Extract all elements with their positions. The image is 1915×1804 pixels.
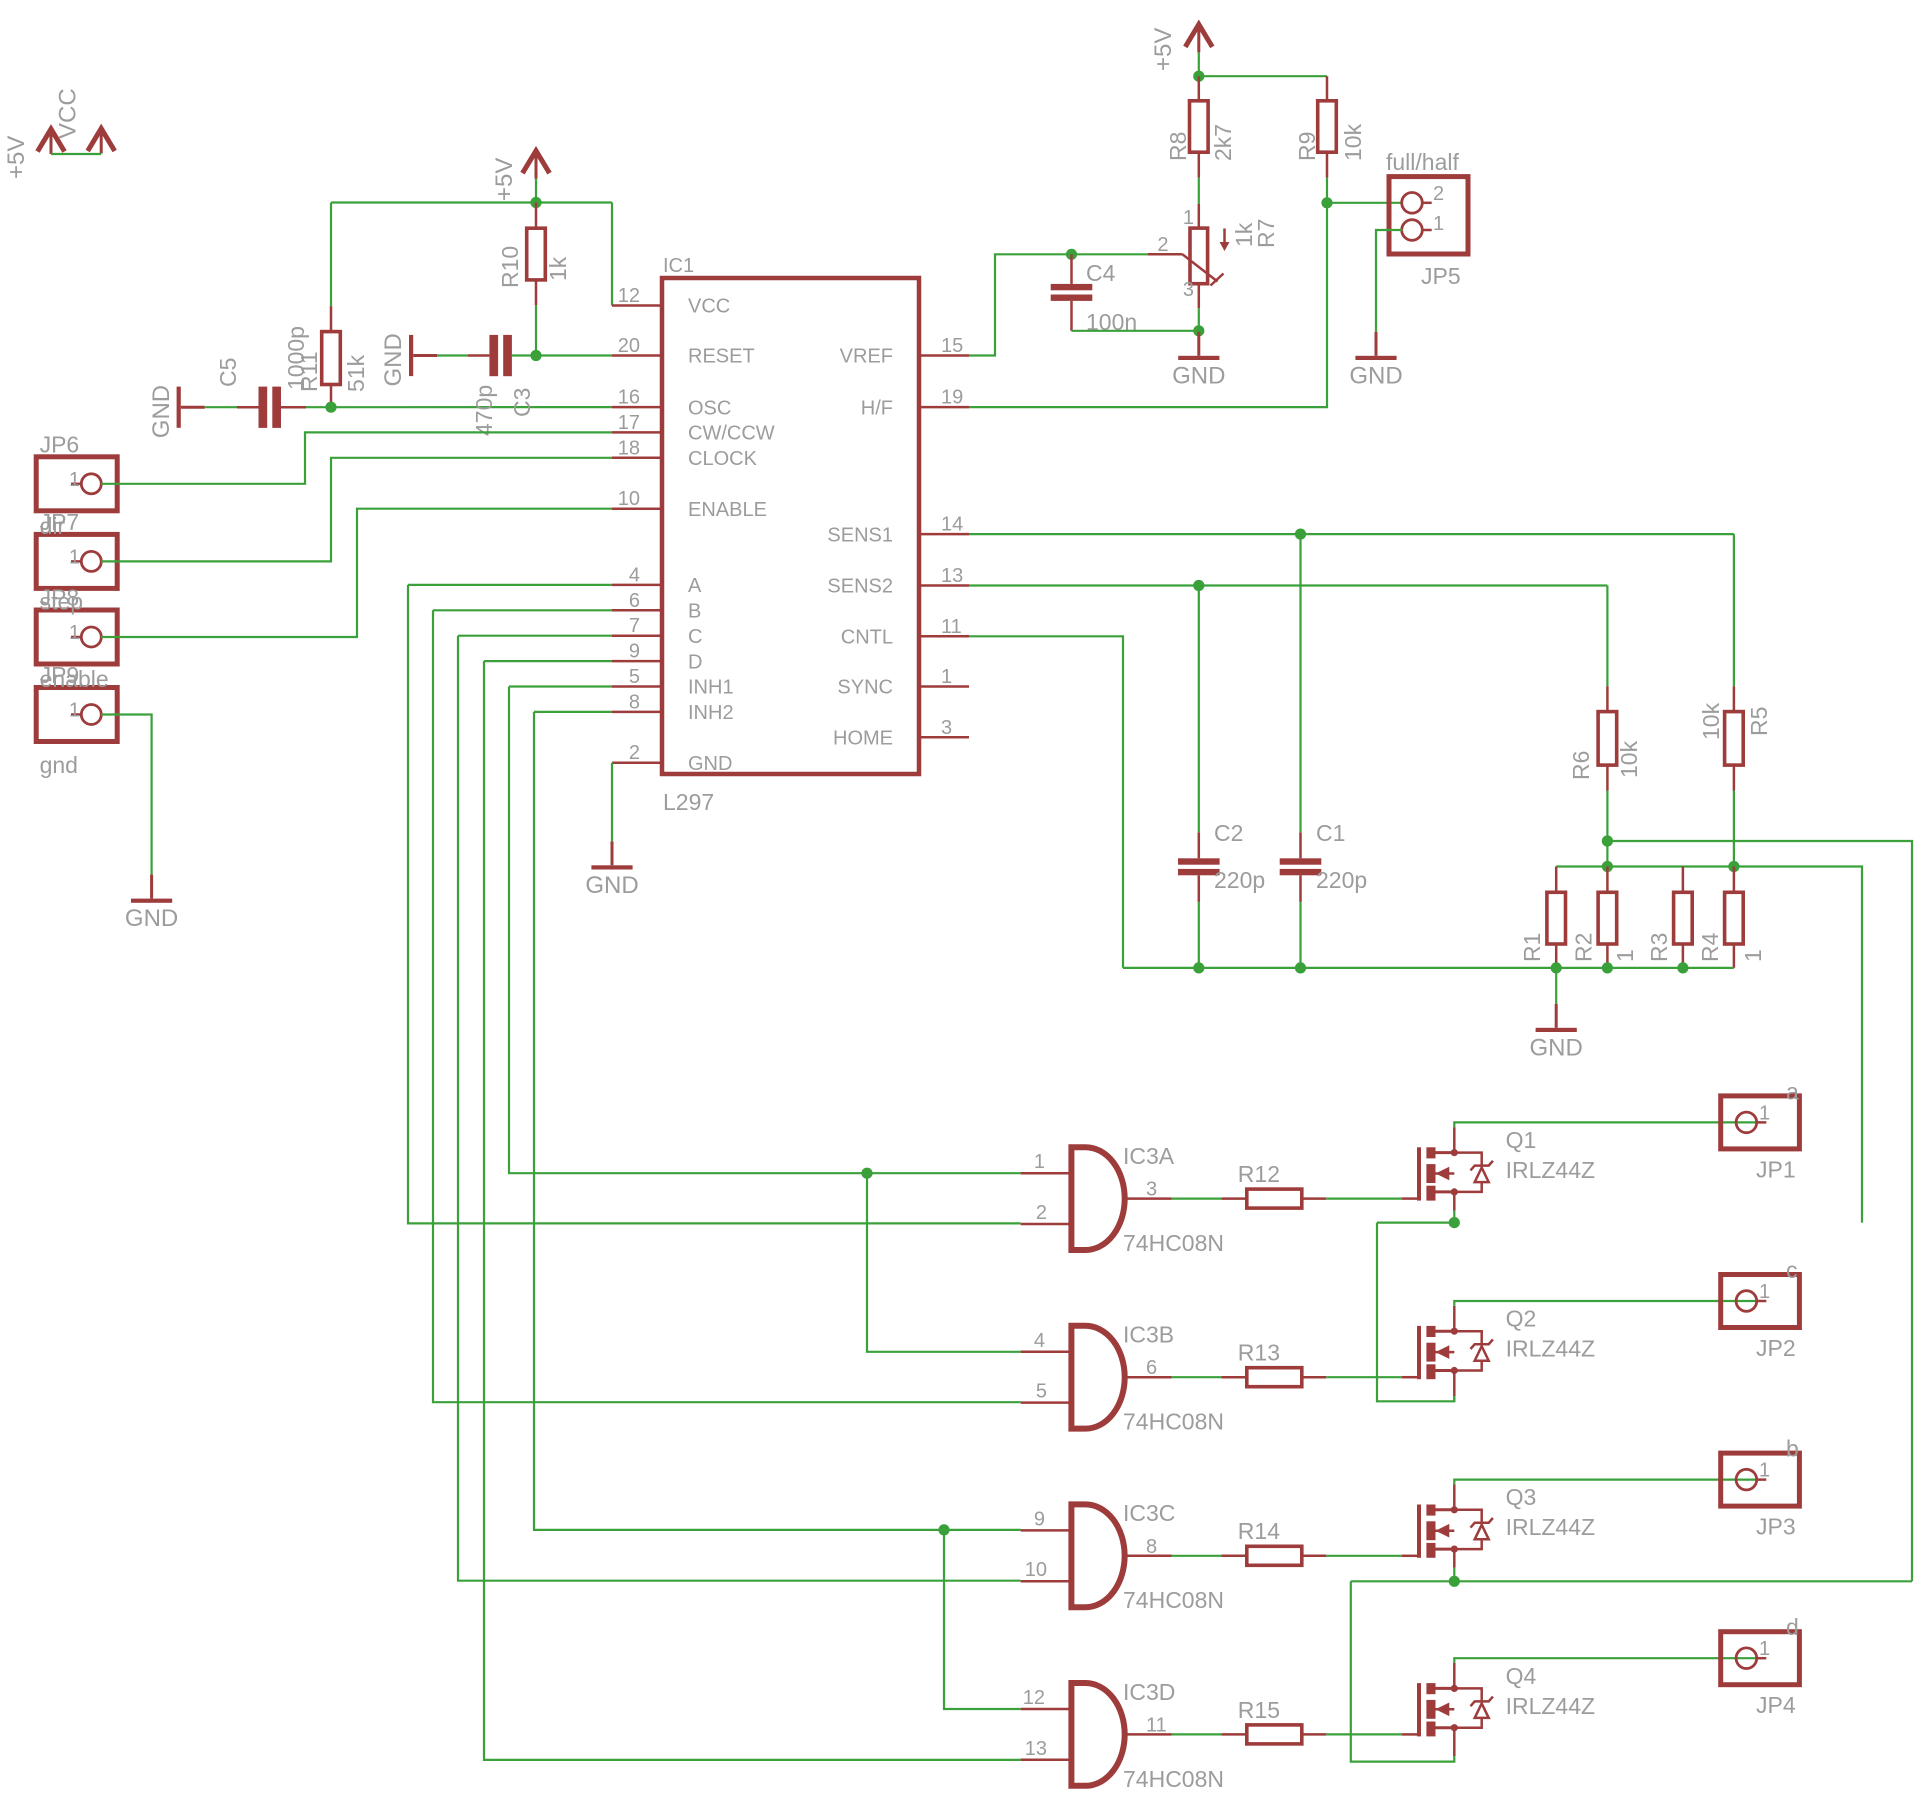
svg-text:12: 12 xyxy=(618,285,640,307)
resistor R2 xyxy=(1598,892,1617,944)
wire (GND bus) xyxy=(1123,967,1734,969)
ground (rotated, left of C3) xyxy=(413,354,437,357)
svg-text:20: 20 xyxy=(618,335,640,357)
svg-text:3: 3 xyxy=(1183,279,1194,301)
wire xyxy=(1402,1376,1417,1379)
junction xyxy=(861,1168,872,1179)
wire xyxy=(1299,902,1301,968)
svg-text:1: 1 xyxy=(1183,207,1194,229)
op-amp U1 IC1 L297 box xyxy=(662,278,919,774)
wire xyxy=(1606,686,1609,711)
svg-text:R9: R9 xyxy=(1294,132,1320,161)
connector JP4 xyxy=(1721,1632,1800,1685)
svg-text:14: 14 xyxy=(941,514,963,536)
resistor R14 xyxy=(1247,1546,1302,1565)
junction xyxy=(1449,1217,1460,1228)
wire xyxy=(1221,1733,1246,1736)
wire xyxy=(1453,1211,1455,1223)
wire (drain to JP) xyxy=(1454,1122,1761,1127)
pin 1 SYNC (IC1 right) xyxy=(919,685,969,688)
svg-text:JP3: JP3 xyxy=(1756,1514,1796,1540)
svg-text:1k: 1k xyxy=(545,256,571,281)
pin 19 H/F (IC1 right) xyxy=(919,406,969,409)
svg-text:R10: R10 xyxy=(497,246,523,288)
svg-text:JP2: JP2 xyxy=(1756,1335,1796,1361)
wire xyxy=(1199,75,1327,77)
wire xyxy=(1198,832,1201,858)
svg-text:VREF: VREF xyxy=(840,346,893,368)
svg-text:HOME: HOME xyxy=(833,728,893,750)
wire xyxy=(1606,791,1608,867)
wire (C net down) xyxy=(458,636,1021,1581)
wire xyxy=(1555,968,1557,1004)
junction xyxy=(530,197,541,208)
svg-text:IC3B: IC3B xyxy=(1123,1322,1174,1348)
svg-text:H/F: H/F xyxy=(861,397,893,419)
pin 15 VREF (IC1 right) xyxy=(919,354,969,357)
svg-text:220p: 220p xyxy=(1214,867,1265,893)
svg-text:4: 4 xyxy=(1034,1330,1045,1352)
supply +5V symbol (top right) xyxy=(1185,24,1212,47)
wire (Q3/Q4 source loop) xyxy=(1351,1581,1455,1761)
pin 10 ENABLE (IC1 left) xyxy=(612,507,662,510)
wire xyxy=(306,406,331,408)
svg-text:IC3D: IC3D xyxy=(1123,1679,1175,1705)
svg-text:74HC08N: 74HC08N xyxy=(1123,1230,1224,1256)
resistor R1 xyxy=(1547,892,1566,944)
wire xyxy=(1453,1728,1456,1756)
connector JP2 xyxy=(1721,1275,1800,1328)
svg-text:10k: 10k xyxy=(1340,123,1366,161)
pot R7 adjust arrow xyxy=(1223,229,1226,247)
svg-text:19: 19 xyxy=(941,387,963,409)
svg-text:C2: C2 xyxy=(1214,820,1243,846)
wire xyxy=(1606,586,1608,687)
junction xyxy=(1295,962,1306,973)
wire xyxy=(1351,1580,1912,1582)
svg-text:74HC08N: 74HC08N xyxy=(1123,1409,1224,1435)
wire xyxy=(1172,1376,1222,1378)
wire xyxy=(1733,867,1736,893)
wire xyxy=(1326,152,1329,177)
svg-text:3: 3 xyxy=(1146,1179,1157,1201)
resistor R4 xyxy=(1725,892,1744,944)
svg-text:C3: C3 xyxy=(509,388,535,417)
svg-text:2: 2 xyxy=(1433,183,1444,205)
wire xyxy=(1302,1197,1327,1200)
wire xyxy=(1606,867,1609,893)
junction xyxy=(938,1524,949,1535)
svg-text:R4: R4 xyxy=(1697,932,1723,962)
pin 18 CLOCK (IC1 left) xyxy=(612,457,662,460)
capacitor C3 xyxy=(489,335,498,376)
svg-text:5: 5 xyxy=(629,666,640,688)
svg-text:1: 1 xyxy=(1759,1281,1770,1303)
junction xyxy=(1193,71,1204,82)
wire xyxy=(1453,1396,1455,1401)
svg-text:6: 6 xyxy=(1146,1357,1157,1379)
svg-text:Q4: Q4 xyxy=(1506,1663,1537,1689)
wire xyxy=(1326,178,1328,203)
junction xyxy=(1321,197,1332,208)
wire xyxy=(1326,76,1329,101)
wire xyxy=(281,406,306,409)
svg-text:17: 17 xyxy=(618,412,640,434)
wire xyxy=(330,385,333,408)
svg-text:4: 4 xyxy=(629,564,640,586)
wire xyxy=(1733,534,1735,686)
svg-text:1: 1 xyxy=(1759,1102,1770,1124)
wire xyxy=(1682,944,1685,968)
wire xyxy=(1682,867,1685,893)
svg-text:SYNC: SYNC xyxy=(837,677,893,699)
svg-text:+5V: +5V xyxy=(3,136,30,179)
AND gate IC3D xyxy=(1071,1683,1124,1786)
wire xyxy=(535,203,538,229)
svg-text:R1: R1 xyxy=(1519,933,1545,962)
svg-text:10k: 10k xyxy=(1616,740,1642,778)
wire xyxy=(535,305,537,355)
connector JP9 xyxy=(36,688,117,742)
wire (JP8 to ENABLE) xyxy=(101,509,612,637)
wire xyxy=(1326,1733,1401,1735)
pin 12 VCC (IC1 left) xyxy=(612,304,662,307)
resistor R5 xyxy=(1725,712,1744,766)
svg-text:GND: GND xyxy=(688,753,732,775)
svg-text:470p: 470p xyxy=(471,385,497,436)
capacitor C5 xyxy=(259,387,268,428)
connector JP3 xyxy=(1721,1453,1800,1506)
svg-text:GND: GND xyxy=(1349,362,1402,389)
wire xyxy=(1072,330,1199,332)
transistor Q3 xyxy=(1417,1505,1421,1558)
svg-text:gnd: gnd xyxy=(40,752,78,778)
svg-text:enable: enable xyxy=(40,666,109,692)
svg-text:b: b xyxy=(1786,1436,1799,1462)
resistor R15 xyxy=(1247,1725,1302,1744)
wire (CNTL net) xyxy=(969,636,1123,968)
supply +5V symbol (top-left) xyxy=(38,129,65,152)
svg-text:R12: R12 xyxy=(1238,1161,1280,1187)
wire xyxy=(1555,944,1558,968)
wire xyxy=(1402,1555,1417,1558)
wire xyxy=(1198,152,1201,177)
svg-text:1: 1 xyxy=(941,666,952,688)
wire (INH2 down) xyxy=(534,712,1021,1530)
wire xyxy=(1453,1549,1456,1568)
svg-text:VCC: VCC xyxy=(55,88,82,139)
wire (drain) xyxy=(1453,1127,1456,1152)
wire xyxy=(331,201,612,203)
svg-text:+5V: +5V xyxy=(1150,28,1177,71)
wire xyxy=(468,354,489,357)
svg-text:d: d xyxy=(1786,1614,1799,1640)
wire xyxy=(1402,1733,1417,1736)
connector JP5 xyxy=(1389,177,1468,254)
svg-text:IC3C: IC3C xyxy=(1123,1500,1175,1526)
svg-text:R13: R13 xyxy=(1238,1340,1280,1366)
pin 16 OSC (IC1 left) xyxy=(612,406,662,409)
svg-text:2k7: 2k7 xyxy=(1210,124,1236,161)
wire (B net down) xyxy=(433,610,1021,1402)
svg-text:1: 1 xyxy=(1740,949,1766,962)
wire (INH2 branch) xyxy=(944,1530,1021,1709)
svg-text:INH1: INH1 xyxy=(688,677,734,699)
svg-text:IRLZ44Z: IRLZ44Z xyxy=(1506,1514,1595,1540)
ground (below R1) xyxy=(1555,1004,1558,1028)
wire xyxy=(1299,875,1302,902)
svg-text:9: 9 xyxy=(1034,1508,1045,1530)
svg-text:Q3: Q3 xyxy=(1506,1484,1537,1510)
ground (rotated, left of C5) xyxy=(181,406,205,409)
resistor R9 xyxy=(1318,101,1337,152)
wire xyxy=(1299,534,1301,832)
svg-text:INH2: INH2 xyxy=(688,702,734,724)
wire xyxy=(1198,178,1200,204)
wire xyxy=(1070,301,1073,331)
svg-text:ENABLE: ENABLE xyxy=(688,499,767,521)
wire (sense rail) xyxy=(1556,867,1862,1223)
svg-text:GND: GND xyxy=(585,872,638,899)
wire (JP5 pin1 to gnd) xyxy=(1376,230,1402,332)
wire xyxy=(1327,202,1402,204)
wire (A net down) xyxy=(408,585,1021,1224)
svg-text:Q2: Q2 xyxy=(1506,1306,1537,1332)
wire xyxy=(1302,1376,1327,1379)
resistor R11 xyxy=(322,332,341,385)
wire (INH2 net) xyxy=(534,711,612,713)
junction xyxy=(1677,962,1688,973)
wire xyxy=(437,354,468,356)
junction (R6 bottom) xyxy=(1602,835,1613,846)
svg-text:13: 13 xyxy=(1025,1738,1047,1760)
svg-text:1: 1 xyxy=(69,700,80,722)
AND gate IC3C xyxy=(1071,1504,1124,1607)
svg-text:51k: 51k xyxy=(343,354,369,392)
svg-text:R15: R15 xyxy=(1238,1697,1280,1723)
svg-text:1: 1 xyxy=(1612,949,1638,962)
wire xyxy=(512,354,536,356)
svg-text:R7: R7 xyxy=(1253,219,1279,248)
wire (D net) xyxy=(484,660,612,662)
svg-text:VCC: VCC xyxy=(688,296,730,318)
junction xyxy=(325,402,336,413)
resistor R8 xyxy=(1190,101,1209,152)
pin 4 A (IC1 left) xyxy=(612,584,662,587)
wire xyxy=(237,406,259,409)
connector JP1 xyxy=(1721,1096,1800,1149)
svg-text:3: 3 xyxy=(941,717,952,739)
wire xyxy=(1453,1568,1455,1582)
junction xyxy=(1066,249,1077,260)
wire xyxy=(1733,791,1735,867)
supply +5V symbol (above R10) xyxy=(523,151,550,174)
svg-text:10: 10 xyxy=(1025,1559,1047,1581)
wire xyxy=(1733,765,1736,790)
wire xyxy=(611,763,613,842)
svg-text:10k: 10k xyxy=(1698,702,1724,740)
wire (SENS1 net) xyxy=(969,533,1734,535)
wire xyxy=(1326,1555,1401,1557)
svg-text:GND: GND xyxy=(148,385,175,438)
svg-text:2: 2 xyxy=(1036,1202,1047,1224)
wire (drain to JP) xyxy=(1454,1658,1761,1663)
wire xyxy=(1733,944,1736,968)
wire xyxy=(1198,52,1200,76)
wire xyxy=(1606,765,1609,790)
svg-text:11: 11 xyxy=(1146,1714,1167,1736)
svg-text:L297: L297 xyxy=(663,789,714,815)
wire xyxy=(1221,1197,1246,1200)
svg-text:Q1: Q1 xyxy=(1506,1127,1537,1153)
svg-text:2: 2 xyxy=(629,742,640,764)
svg-text:C5: C5 xyxy=(215,358,241,387)
wire xyxy=(1302,1733,1327,1736)
capacitor C1 xyxy=(1280,858,1322,864)
junction xyxy=(1295,529,1306,540)
wire (D net down) xyxy=(484,661,1021,1760)
ground (below JP5) xyxy=(1375,332,1378,356)
wire (A net) xyxy=(408,584,612,586)
connector JP8 xyxy=(36,610,117,664)
wire xyxy=(535,179,537,203)
wire xyxy=(1326,1376,1401,1378)
transistor Q2 xyxy=(1417,1326,1421,1379)
wire xyxy=(1172,1197,1222,1199)
wire xyxy=(1172,1555,1222,1557)
svg-text:C: C xyxy=(688,626,702,648)
wire (C net) xyxy=(458,635,612,637)
wire xyxy=(205,406,237,408)
svg-text:IRLZ44Z: IRLZ44Z xyxy=(1506,1157,1595,1183)
capacitor C2 xyxy=(1178,858,1220,864)
svg-text:16: 16 xyxy=(618,387,640,409)
ground (below R7) xyxy=(1197,332,1200,356)
wire xyxy=(1299,832,1302,858)
junction xyxy=(1602,861,1613,872)
svg-text:GND: GND xyxy=(1530,1034,1583,1061)
svg-text:2: 2 xyxy=(1157,234,1168,256)
svg-text:5: 5 xyxy=(1036,1381,1047,1403)
AND gate IC3B xyxy=(1071,1326,1124,1429)
wire (drain to JP) xyxy=(1454,1480,1761,1485)
svg-text:1: 1 xyxy=(1034,1151,1045,1173)
wire xyxy=(1402,1197,1417,1200)
resistor R10 xyxy=(527,228,546,280)
svg-text:18: 18 xyxy=(618,437,640,459)
svg-text:C1: C1 xyxy=(1316,820,1345,846)
svg-text:JP4: JP4 xyxy=(1756,1692,1796,1718)
wire xyxy=(1172,1733,1222,1735)
wire xyxy=(1198,308,1200,331)
wire (drain) xyxy=(1453,1663,1456,1688)
svg-text:GND: GND xyxy=(125,905,178,932)
svg-text:1: 1 xyxy=(1433,213,1444,235)
svg-text:R3: R3 xyxy=(1646,933,1672,962)
pin 3 HOME (IC1 right) xyxy=(919,736,969,739)
junction xyxy=(1602,962,1613,973)
pin 2 GND (IC1 left) xyxy=(612,761,662,764)
junction xyxy=(1449,1576,1460,1587)
svg-text:IRLZ44Z: IRLZ44Z xyxy=(1506,1336,1595,1362)
pin 20 RESET (IC1 left) xyxy=(612,354,662,357)
junction xyxy=(1728,861,1739,872)
svg-text:1: 1 xyxy=(69,546,80,568)
junction xyxy=(1551,962,1562,973)
resistor R13 xyxy=(1247,1368,1302,1387)
svg-text:R2: R2 xyxy=(1570,933,1596,962)
wire (INH1 branch) xyxy=(867,1173,1021,1352)
wire xyxy=(330,306,333,331)
pin 11 CNTL (IC1 right) xyxy=(919,635,969,638)
wire xyxy=(1377,1221,1454,1223)
svg-text:15: 15 xyxy=(941,335,963,357)
svg-text:C4: C4 xyxy=(1086,260,1116,286)
svg-text:JP1: JP1 xyxy=(1756,1156,1796,1182)
AND gate IC3A xyxy=(1071,1147,1124,1250)
svg-text:c: c xyxy=(1786,1257,1798,1283)
wire (drain) xyxy=(1453,1484,1456,1509)
svg-text:12: 12 xyxy=(1023,1687,1045,1709)
wire xyxy=(1198,875,1201,902)
wire (drain to JP) xyxy=(1454,1301,1761,1306)
junction xyxy=(530,350,541,361)
wire (JP6 to CW/CCW) xyxy=(101,432,612,483)
wire xyxy=(1453,1192,1456,1211)
wire (JP7 to CLOCK) xyxy=(101,458,612,562)
resistor R6 xyxy=(1598,712,1617,766)
svg-text:1: 1 xyxy=(1759,1460,1770,1482)
wire xyxy=(51,153,101,155)
svg-text:JP5: JP5 xyxy=(1421,263,1461,289)
svg-text:1: 1 xyxy=(69,469,80,491)
connector JP7 xyxy=(36,534,117,588)
wire (B net) xyxy=(433,609,612,611)
svg-text:IRLZ44Z: IRLZ44Z xyxy=(1506,1693,1595,1719)
junction xyxy=(1193,325,1204,336)
pin 8 INH2 (IC1 left) xyxy=(612,711,662,714)
wire (RESET net) xyxy=(536,354,612,356)
svg-text:GND: GND xyxy=(380,333,407,386)
svg-text:SENS1: SENS1 xyxy=(827,524,893,546)
pot R7 wiper xyxy=(1148,253,1183,256)
wire xyxy=(535,280,538,305)
svg-text:8: 8 xyxy=(629,691,640,713)
svg-text:IC1: IC1 xyxy=(663,255,694,277)
svg-text:SENS2: SENS2 xyxy=(827,576,893,598)
svg-text:10: 10 xyxy=(618,488,640,510)
wire xyxy=(1198,902,1200,968)
svg-text:GND: GND xyxy=(1172,362,1225,389)
supply VCC symbol (top-left) xyxy=(88,129,115,152)
wire xyxy=(1221,1555,1246,1558)
wire xyxy=(1302,1555,1327,1558)
svg-text:74HC08N: 74HC08N xyxy=(1123,1587,1224,1613)
wire (SENS2 rail) xyxy=(1607,841,1912,1581)
wire xyxy=(1198,76,1201,101)
capacitor C4 xyxy=(1051,284,1093,290)
svg-text:dir: dir xyxy=(40,513,66,539)
pin 13 SENS2 (IC1 right) xyxy=(919,584,969,587)
wire (VREF net) xyxy=(969,254,1148,355)
wire (INH1 down) xyxy=(509,687,1021,1174)
pin 14 SENS1 (IC1 right) xyxy=(919,533,969,536)
svg-text:1: 1 xyxy=(69,622,80,644)
svg-text:step: step xyxy=(40,589,83,615)
svg-text:R6: R6 xyxy=(1568,751,1594,780)
wire (OSC net) xyxy=(331,406,612,408)
junction xyxy=(1193,962,1204,973)
